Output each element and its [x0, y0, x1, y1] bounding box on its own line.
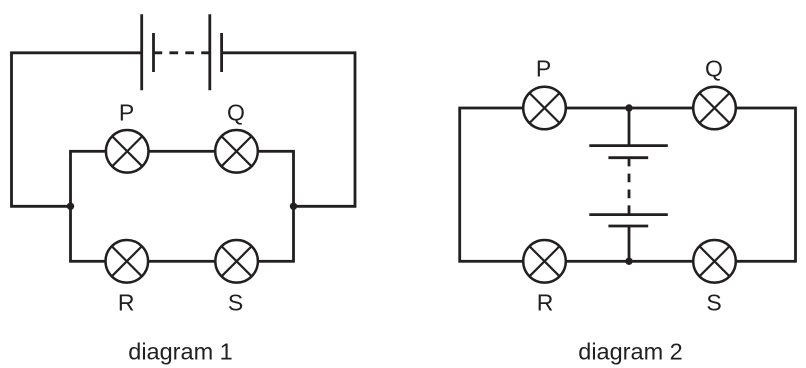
svg-text:diagram 1: diagram 1: [128, 339, 233, 365]
wire: dashed link between battery cells (B2): [628, 158, 631, 215]
battery B2 cell1 short plate: [608, 156, 648, 159]
battery B2 cell2 short plate: [608, 225, 648, 228]
svg-text:Q: Q: [705, 56, 723, 82]
svg-text:S: S: [228, 290, 243, 316]
wire: dashed link between battery cells (B1): [154, 51, 210, 54]
battery B2 cell1 long plate: [589, 144, 668, 147]
svg-text:Q: Q: [227, 100, 245, 126]
node: diagram 2 top junction: [625, 104, 632, 111]
lamp P (diagram 1): [106, 130, 149, 173]
lamp P (diagram 2): [523, 87, 566, 130]
svg-text:diagram 2: diagram 2: [578, 339, 683, 365]
svg-text:S: S: [706, 290, 721, 316]
lamp S (diagram 1): [215, 240, 258, 283]
battery B1 cell1 long plate: [140, 14, 143, 90]
wire: diagram 1 outer loop right (battery right terminal to right junction): [222, 53, 355, 207]
wire: diagram 2 outer rectangle: [460, 108, 796, 261]
battery B1 cell2 long plate: [208, 14, 211, 90]
lamp S (diagram 2): [693, 240, 736, 283]
battery B1 cell1 short plate: [152, 33, 155, 72]
svg-text:R: R: [118, 290, 135, 316]
battery B2 cell2 long plate: [589, 213, 668, 216]
node: diagram 2 bottom junction: [625, 258, 632, 265]
wire: battery B2 bottom lead: [628, 226, 631, 261]
wire: battery B2 top lead: [628, 108, 631, 146]
lamp Q (diagram 2): [693, 87, 736, 130]
node: diagram 1 right junction: [290, 203, 297, 210]
lamp R (diagram 1): [106, 240, 149, 283]
node: diagram 1 left junction: [67, 203, 74, 210]
battery B1 cell2 short plate: [220, 33, 223, 72]
svg-text:P: P: [536, 56, 551, 82]
wire: diagram 1 parallel branch rectangle: [71, 151, 294, 261]
lamp R (diagram 2): [523, 240, 566, 283]
svg-text:R: R: [537, 290, 554, 316]
svg-text:P: P: [119, 100, 134, 126]
wire: diagram 1 outer loop left (battery left plate to left junction): [12, 53, 142, 207]
lamp Q (diagram 1): [215, 130, 258, 173]
